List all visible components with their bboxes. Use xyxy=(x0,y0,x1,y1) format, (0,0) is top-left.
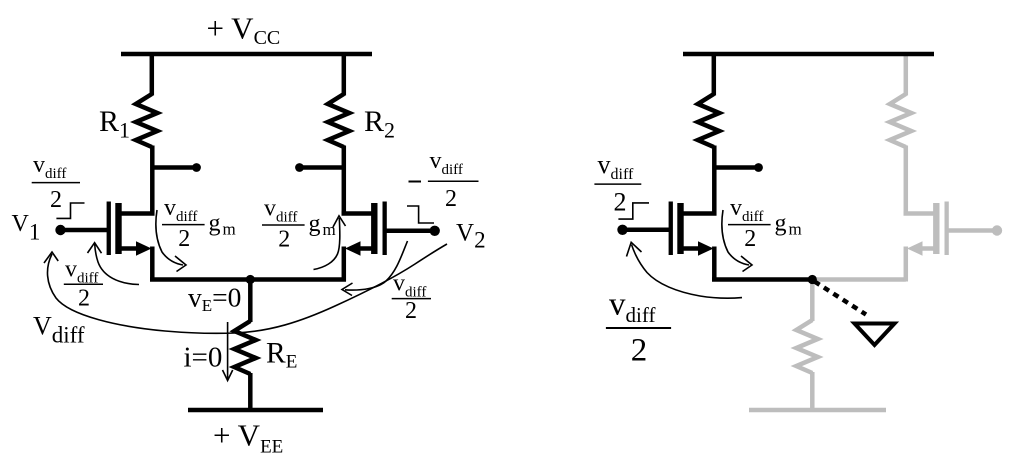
annotation arrow Vdiff big curve xyxy=(47,244,447,333)
Q2 source lead xyxy=(357,246,373,251)
wire RE to VEE rail xyxy=(248,373,253,410)
svg-text:m: m xyxy=(223,220,236,239)
annotation arrow vdiff/2 to input (half circuit) xyxy=(632,245,743,299)
Q3 source wire down xyxy=(712,247,717,282)
Q1 source wire down xyxy=(150,247,155,282)
svg-text:2: 2 xyxy=(50,187,62,213)
Q3 source lead xyxy=(682,246,701,251)
label vdiff/2 big bottom (half circuit) xyxy=(606,287,671,369)
label -vdiff/2 above V2 xyxy=(409,148,479,212)
annotation arrow vdiff/2 to gate curve xyxy=(95,244,139,285)
VCC rail xyxy=(121,52,372,57)
ground symbol xyxy=(855,324,895,346)
V1 input dot xyxy=(55,225,65,235)
svg-text:vdiff: vdiff xyxy=(65,256,98,286)
gray Q4 source wire down xyxy=(904,247,909,282)
current arrow i=0 shaft xyxy=(227,322,229,379)
label vdiff/2 gm left xyxy=(162,195,236,252)
svg-text:vdiff: vdiff xyxy=(430,148,463,178)
svg-text:vdiff: vdiff xyxy=(264,196,297,226)
gray wire rail to R2 xyxy=(904,56,909,96)
svg-text:RE: RE xyxy=(266,338,297,373)
gray wire node to RE xyxy=(810,281,815,321)
output tap right wire xyxy=(302,165,344,170)
resistor R (half circuit) xyxy=(698,94,720,147)
svg-text:R1: R1 xyxy=(99,105,130,143)
label vdiff/2 above V1 xyxy=(32,152,80,213)
svg-text:2: 2 xyxy=(744,226,756,252)
svg-text:vdiff: vdiff xyxy=(598,150,634,183)
svg-text:m: m xyxy=(323,220,336,239)
wire R2 to Q2 drain xyxy=(342,146,347,216)
VEE rail xyxy=(188,408,323,413)
label vdiff/2 gm right xyxy=(262,196,336,253)
transistor Q1 gate bar xyxy=(107,202,111,256)
svg-text:2: 2 xyxy=(278,227,290,253)
gray transistor Q4 channel bar xyxy=(933,203,939,254)
input step symbol (half circuit) xyxy=(618,203,649,219)
current arrow gm right xyxy=(314,218,340,270)
black vE wire (half circuit) xyxy=(712,277,812,282)
node vE dot xyxy=(246,275,255,284)
V2 step symbol xyxy=(407,206,434,223)
output tap left wire xyxy=(152,165,194,170)
gray resistor RE xyxy=(796,320,818,373)
wire rail to R2 xyxy=(342,54,347,96)
input gate wire (half circuit) xyxy=(623,228,671,233)
output tap wire (half circuit) xyxy=(714,165,756,170)
wire rail to R xyxy=(712,54,717,96)
svg-text:2: 2 xyxy=(631,333,648,369)
transistor Q1 channel bar xyxy=(115,203,121,254)
gray input dot xyxy=(992,225,1002,235)
svg-text:vdiff: vdiff xyxy=(164,195,197,225)
gray Q4 drain lead xyxy=(904,211,936,216)
label vdiff/2 lower-left xyxy=(64,256,103,311)
wire node to RE xyxy=(248,280,253,323)
gray Q4 source lead xyxy=(919,246,935,251)
svg-text:V1: V1 xyxy=(12,211,41,245)
resistor R2 xyxy=(328,94,350,147)
svg-text:2: 2 xyxy=(405,298,417,324)
svg-text:Vdiff: Vdiff xyxy=(33,312,85,348)
svg-text:V2: V2 xyxy=(456,219,486,252)
Q1 source arrow xyxy=(136,241,152,255)
label vdiff/2 right of V2 xyxy=(392,271,431,325)
annotation arrow Vdiff head xyxy=(44,252,58,263)
dashed wire to ground xyxy=(815,282,867,315)
output tap dot (half circuit) xyxy=(754,163,763,172)
svg-text:vdiff: vdiff xyxy=(730,195,763,225)
current arrow gm (half circuit) xyxy=(722,210,749,265)
gray Q4 source arrow xyxy=(907,241,923,255)
gray wire RE to VEE rail xyxy=(810,372,815,410)
annotation arrow head (half circuit) xyxy=(627,242,642,256)
annotation arrow vdiff/2 head xyxy=(88,243,102,254)
svg-text:2: 2 xyxy=(178,226,190,252)
current arrow i=0 head xyxy=(223,370,233,381)
gray resistor R2 xyxy=(890,94,912,147)
Q2 source arrow xyxy=(345,241,361,255)
label vdiff/2 top (half circuit) xyxy=(594,150,641,217)
svg-text:+ VEE: + VEE xyxy=(213,418,283,458)
output tap left dot xyxy=(192,163,201,172)
svg-text:m: m xyxy=(789,220,802,239)
svg-text:vdiff: vdiff xyxy=(393,271,426,301)
gray transistor Q4 gate bar xyxy=(945,202,949,256)
annotation arrow -vdiff/2 head xyxy=(342,283,353,296)
wire rail to R1 xyxy=(150,54,155,96)
transistor Q3 gate bar xyxy=(669,202,673,256)
svg-text:2: 2 xyxy=(614,188,627,217)
Q3 drain lead xyxy=(682,211,717,216)
annotation arrow -vdiff/2 to source xyxy=(345,241,408,290)
svg-text:vdiff: vdiff xyxy=(33,152,66,182)
Q1 source lead xyxy=(120,246,139,251)
transistor Q2 channel bar xyxy=(371,203,377,254)
V2 input dot xyxy=(430,226,440,236)
current arrow gm left head xyxy=(175,256,186,272)
resistor RE xyxy=(234,321,256,374)
transistor Q2 gate bar xyxy=(383,202,387,256)
wire R1 to Q1 drain xyxy=(150,146,155,216)
svg-text:i=0: i=0 xyxy=(184,342,223,374)
wire R to Q3 drain xyxy=(712,146,717,216)
svg-text:g: g xyxy=(309,211,321,237)
svg-text:vdiff: vdiff xyxy=(609,287,655,328)
current arrow gm right head xyxy=(333,216,346,227)
output tap right dot xyxy=(295,163,304,172)
gray wire R2 to Q4 drain xyxy=(904,146,909,216)
V1 step symbol xyxy=(56,203,84,218)
node dot (half circuit) xyxy=(808,275,817,284)
V1 gate wire xyxy=(61,228,109,233)
svg-text:R2: R2 xyxy=(364,105,395,143)
Q1 drain lead xyxy=(120,211,155,216)
gray vE wire xyxy=(814,277,906,282)
V2 gate wire xyxy=(384,229,435,234)
label vdiff/2 gm (half circuit) xyxy=(728,195,802,252)
Q3 source arrow xyxy=(698,241,714,255)
gray VEE rail xyxy=(749,408,886,413)
current arrow gm left xyxy=(156,210,183,265)
svg-text:g: g xyxy=(775,211,787,237)
transistor Q3 channel bar xyxy=(677,203,683,254)
vE wire xyxy=(150,277,346,282)
svg-text:+ VCC: + VCC xyxy=(207,11,281,50)
svg-text:g: g xyxy=(209,211,221,237)
svg-text:vE=0: vE=0 xyxy=(188,282,241,316)
current arrow gm head (half circuit) xyxy=(741,256,752,272)
VCC rail (half circuit) xyxy=(683,52,934,57)
svg-text:2: 2 xyxy=(445,186,457,212)
Q2 drain lead xyxy=(342,211,374,216)
resistor R1 xyxy=(136,94,158,147)
input dot (half circuit) xyxy=(617,225,627,235)
Q2 source wire down xyxy=(342,247,347,282)
gray gate wire xyxy=(946,228,997,233)
svg-text:2: 2 xyxy=(78,286,90,312)
